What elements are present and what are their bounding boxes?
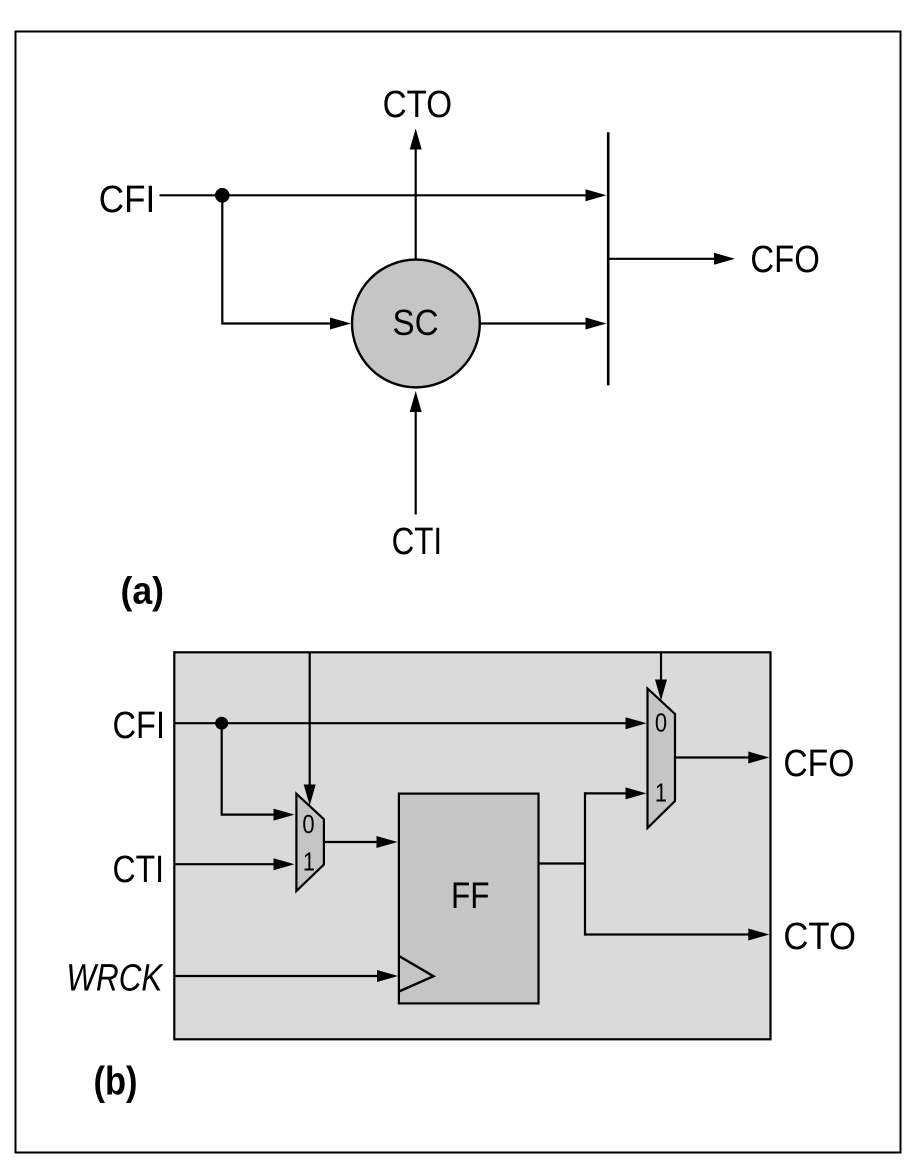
cell boundary box (b) [174, 652, 770, 1039]
wire M1 select [304, 653, 316, 806]
wire M1 output to FF [324, 836, 398, 848]
svg-text:(a): (a) [121, 571, 165, 613]
svg-text:1: 1 [655, 778, 667, 808]
svg-text:CTO: CTO [783, 916, 856, 958]
multiplexer M1 [296, 794, 324, 891]
wire CFI branch to M1 [222, 723, 295, 820]
wire M2 select [655, 653, 667, 701]
wire WRCK (b) [175, 970, 398, 982]
junction node CFI (a) [215, 188, 230, 203]
wire SC output (a) [480, 318, 607, 330]
svg-text:SC: SC [393, 302, 439, 343]
wire CFI (a) [160, 189, 607, 201]
svg-text:CFO: CFO [783, 743, 854, 785]
svg-text:CTI: CTI [392, 521, 443, 563]
svg-text:CFI: CFI [113, 705, 166, 747]
svg-text:(b): (b) [94, 1059, 138, 1103]
svg-text:CTO: CTO [383, 84, 453, 126]
svg-text:WRCK: WRCK [66, 958, 163, 1000]
multiplexer M2 [648, 689, 676, 829]
wire FF output bus vertical [584, 792, 586, 935]
wire CFO (a) [609, 253, 735, 265]
svg-text:0: 0 [655, 708, 667, 738]
svg-text:0: 0 [302, 809, 314, 839]
svg-text:CFO: CFO [750, 239, 820, 281]
wire FF output [539, 862, 586, 864]
wire CTO (b) [585, 929, 769, 941]
wire CTI arrow (a) [410, 391, 422, 515]
wire CTI (b) [175, 858, 295, 870]
wire CFI (b) [175, 717, 647, 729]
svg-text:CTI: CTI [113, 849, 165, 891]
clock triangle on FF [399, 956, 434, 992]
wire CFI branch to SC (a) [222, 195, 351, 329]
wire CFO (b) [675, 752, 769, 764]
scan cell SC (a) [352, 260, 480, 388]
svg-text:CFI: CFI [99, 179, 156, 221]
svg-text:1: 1 [303, 847, 315, 877]
wire CTO arrow (a) [410, 129, 422, 260]
svg-text:FF: FF [451, 875, 490, 916]
junction node CFI (b) [215, 717, 228, 730]
wire FF output to M2 input 1 [585, 787, 647, 799]
flip-flop FF [399, 794, 539, 1004]
bus bar (a) [607, 132, 610, 385]
